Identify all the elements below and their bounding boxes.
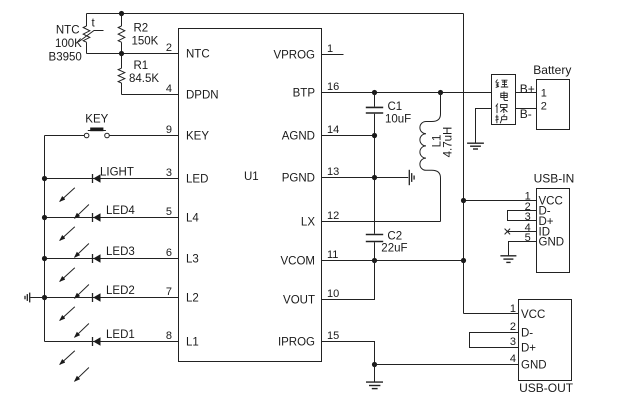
svg-text:2: 2 xyxy=(166,42,172,54)
svg-text:U1: U1 xyxy=(244,171,259,183)
svg-text:5: 5 xyxy=(166,206,172,218)
pin 12 label LX xyxy=(301,210,339,229)
ground at PGND xyxy=(409,170,414,185)
svg-text:IPROG: IPROG xyxy=(278,337,315,349)
svg-text:1: 1 xyxy=(327,43,333,55)
ground below IPROG xyxy=(366,365,383,389)
svg-text:Battery: Battery xyxy=(533,63,571,77)
LED LED1 xyxy=(45,329,179,382)
wire pin 1 VPROG stub xyxy=(322,54,344,56)
pin 1 label VPROG xyxy=(273,43,333,62)
wire USB-IN GND down xyxy=(509,242,537,256)
node junction VCOM C2 xyxy=(372,258,377,263)
svg-text:LED4: LED4 xyxy=(106,205,135,217)
wire NTC row to pin 2 xyxy=(87,53,179,55)
pin 14 label AGND xyxy=(282,124,339,143)
label C1 10uF xyxy=(385,101,411,125)
node junction L1 top xyxy=(438,90,443,95)
pin 2 label NTC xyxy=(166,42,210,61)
wire pin 12 LX to L1 bottom xyxy=(322,221,441,223)
svg-text:USB-OUT: USB-OUT xyxy=(519,381,574,395)
label protect char bao xyxy=(496,104,508,114)
svg-text:LED3: LED3 xyxy=(106,246,135,258)
label R2 150K xyxy=(132,22,159,47)
svg-text:7: 7 xyxy=(166,286,172,298)
svg-text:VOUT: VOUT xyxy=(283,295,315,307)
pin 13 label PGND xyxy=(282,166,339,185)
svg-text:D-: D- xyxy=(521,328,533,340)
pin 3 label LED xyxy=(166,167,209,186)
ground below USB-IN xyxy=(500,256,516,263)
svg-text:VPROG: VPROG xyxy=(273,50,315,62)
battery protection block li-ion protect xyxy=(492,75,516,125)
svg-text:VCOM: VCOM xyxy=(281,256,316,268)
wire top rail from NTC top across to output rail xyxy=(87,13,464,15)
pin 8 label L1 xyxy=(166,330,199,349)
wire R1 bottom to pin 4 xyxy=(122,94,179,96)
svg-text:KEY: KEY xyxy=(186,131,209,143)
resistor R1 xyxy=(118,54,125,95)
pin 4 label DPDN xyxy=(166,83,219,102)
svg-text:R1: R1 xyxy=(134,60,149,72)
svg-text:9: 9 xyxy=(166,124,172,136)
node junction bus LED2 xyxy=(42,295,47,300)
wire pin 13 PGND xyxy=(322,177,409,179)
wire pin 11 VCOM to rail xyxy=(322,260,464,262)
node junction bus LIGHT xyxy=(42,176,47,181)
label C2 22uF xyxy=(381,230,407,254)
node junction bus LED4 xyxy=(42,215,47,220)
svg-text:16: 16 xyxy=(327,81,339,93)
svg-text:2: 2 xyxy=(510,321,516,333)
node junction rail USB-IN VCC xyxy=(461,198,466,203)
label protect char hu xyxy=(495,114,507,123)
svg-text:13: 13 xyxy=(327,166,339,178)
svg-text:84.5K: 84.5K xyxy=(129,73,159,85)
svg-text:L3: L3 xyxy=(186,254,199,266)
node junction PGND xyxy=(372,175,377,180)
svg-text:6: 6 xyxy=(166,247,172,259)
wire USB-IN ID stub with x mark xyxy=(505,229,537,235)
svg-text:GND: GND xyxy=(539,237,565,249)
switch KEY pushbutton xyxy=(45,114,179,138)
svg-text:B-: B- xyxy=(520,107,532,121)
wire pin 14 AGND xyxy=(322,135,375,137)
svg-text:1: 1 xyxy=(541,87,547,99)
svg-text:5: 5 xyxy=(525,232,531,244)
label L1 4.7uH xyxy=(432,127,455,158)
wire USB-IN D- D+ short loop xyxy=(508,211,537,221)
svg-text:B3950: B3950 xyxy=(49,51,82,63)
svg-text:D+: D+ xyxy=(521,343,536,355)
pin 11 label VCOM xyxy=(281,249,339,268)
capacitor C2 xyxy=(366,235,383,261)
pin 16 label BTP xyxy=(293,81,340,100)
LED LIGHT xyxy=(45,167,179,219)
svg-text:100K: 100K xyxy=(55,38,82,50)
pin 5 label L4 xyxy=(166,206,200,225)
svg-text:4: 4 xyxy=(166,83,172,95)
wire protection block to ground xyxy=(476,109,492,143)
svg-text:B+: B+ xyxy=(520,82,535,96)
ground left of LED2 xyxy=(25,293,45,303)
svg-text:150K: 150K xyxy=(132,35,159,47)
pin 7 label L2 xyxy=(166,286,199,305)
wire pin 10 VOUT up to VCOM xyxy=(322,261,375,300)
node junction VCOM rail xyxy=(461,258,466,263)
svg-text:4.7uH: 4.7uH xyxy=(443,127,455,158)
capacitor C1 xyxy=(366,93,383,234)
svg-text:L1: L1 xyxy=(186,337,199,349)
wire USB-OUT VCC from rail xyxy=(464,313,519,315)
pin 15 label IPROG xyxy=(278,330,339,349)
IC U1 body xyxy=(179,29,322,362)
node junction C1 top xyxy=(372,90,377,95)
wire USB-OUT GND to ground node xyxy=(375,364,519,366)
svg-text:DPDN: DPDN xyxy=(186,90,219,102)
wire left LED bus xyxy=(44,136,46,342)
svg-text:PGND: PGND xyxy=(282,173,315,185)
svg-text:LED1: LED1 xyxy=(106,329,135,341)
svg-text:2: 2 xyxy=(541,100,547,112)
svg-text:10uF: 10uF xyxy=(385,113,411,125)
svg-text:10: 10 xyxy=(327,288,339,300)
svg-text:LED: LED xyxy=(186,174,208,186)
node junction AGND xyxy=(372,133,377,138)
svg-text:LIGHT: LIGHT xyxy=(100,167,134,179)
svg-text:GND: GND xyxy=(521,360,547,372)
svg-text:14: 14 xyxy=(327,124,339,136)
wire USB-IN VCC from rail xyxy=(464,200,537,202)
LED LED4 xyxy=(45,205,179,257)
svg-text:NTC: NTC xyxy=(186,49,210,61)
wire vertical output rail down right side xyxy=(463,14,465,314)
label protect char dian xyxy=(501,91,508,100)
pin 10 label VOUT xyxy=(283,288,339,307)
svg-text:USB-IN: USB-IN xyxy=(534,171,575,185)
svg-text:8: 8 xyxy=(166,330,172,342)
node junction R2 top xyxy=(119,11,124,16)
svg-text:AGND: AGND xyxy=(282,131,315,143)
node junction IPROG ground xyxy=(372,362,377,367)
svg-text:L4: L4 xyxy=(186,213,199,225)
svg-text:22uF: 22uF xyxy=(381,243,407,255)
svg-text:12: 12 xyxy=(327,210,339,222)
svg-text:C2: C2 xyxy=(387,230,402,242)
LED LED2 xyxy=(45,285,179,338)
USB-IN connector xyxy=(534,171,575,272)
inductor L1 xyxy=(420,93,441,222)
label R1 84.5K xyxy=(129,60,159,85)
svg-text:C1: C1 xyxy=(388,101,403,113)
pin 9 label KEY xyxy=(166,124,209,143)
LED LED3 xyxy=(45,246,179,298)
wire B+ xyxy=(516,82,537,96)
ground below protection block xyxy=(467,143,484,149)
USB-IN pin labels xyxy=(525,191,564,249)
wire USB-OUT D- D+ short loop xyxy=(470,333,519,348)
svg-text:3: 3 xyxy=(166,167,172,179)
svg-text:4: 4 xyxy=(510,353,516,365)
svg-text:LED2: LED2 xyxy=(106,285,135,297)
pin 6 label L3 xyxy=(166,247,199,266)
label protect char li xyxy=(496,80,508,88)
svg-text:KEY: KEY xyxy=(85,114,108,126)
node junction NTC R1 xyxy=(119,51,124,56)
svg-text:LX: LX xyxy=(301,217,315,229)
wire pin 15 IPROG to ground node xyxy=(322,342,375,365)
USB-OUT connector xyxy=(519,300,574,396)
svg-text:11: 11 xyxy=(327,249,338,261)
label NTC 100K B3950 xyxy=(49,24,83,63)
svg-text:NTC: NTC xyxy=(56,24,80,36)
svg-text:3: 3 xyxy=(510,336,516,348)
wire B- xyxy=(516,107,537,121)
svg-text:15: 15 xyxy=(327,330,339,342)
svg-text:R2: R2 xyxy=(134,22,149,34)
resistor NTC thermistor xyxy=(78,14,103,54)
battery connector xyxy=(533,63,571,130)
svg-text:L2: L2 xyxy=(186,293,199,305)
svg-text:BTP: BTP xyxy=(293,88,316,100)
wire pin 16 BTP to protection block xyxy=(322,92,492,94)
node junction bus LED3 xyxy=(42,256,47,261)
resistor R2 xyxy=(118,14,125,54)
USB-OUT pin labels xyxy=(510,303,547,372)
svg-text:VCC: VCC xyxy=(521,309,545,321)
